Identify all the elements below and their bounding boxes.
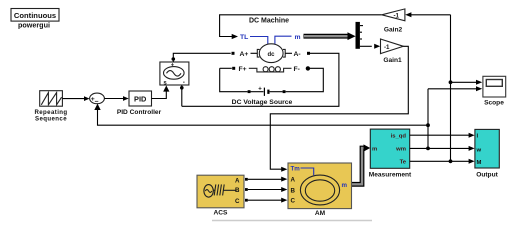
powergui block xyxy=(11,9,59,30)
svg-text:m: m xyxy=(372,147,377,153)
thick m vector wire to demux xyxy=(304,32,356,40)
gain1 xyxy=(381,39,404,64)
svg-text:A: A xyxy=(291,176,296,183)
svg-text:AM: AM xyxy=(315,210,326,217)
controlled voltage source U1 xyxy=(160,62,189,86)
svg-text:B: B xyxy=(235,187,240,194)
wire from Te vertical into gain2 xyxy=(405,12,450,17)
wire wm to output w xyxy=(410,146,475,151)
armature return wire A- to CVS - xyxy=(182,53,339,106)
svg-text:TL: TL xyxy=(240,34,248,41)
wire CVS - terminal down to armature return xyxy=(180,85,184,106)
svg-text:-1: -1 xyxy=(384,44,390,51)
svg-text:Sequence: Sequence xyxy=(35,116,67,123)
wire ACS A to AM A xyxy=(245,177,287,182)
svg-text:dc: dc xyxy=(267,52,275,58)
svg-text:M: M xyxy=(477,160,482,166)
ACS block xyxy=(197,175,244,216)
svg-text:powergui: powergui xyxy=(18,21,50,30)
svg-text:Measurement: Measurement xyxy=(369,172,412,179)
gain2 xyxy=(382,9,405,34)
svg-text:Te: Te xyxy=(400,159,407,165)
wire gain2 output to TL (top loop) xyxy=(220,15,382,39)
wire PID to controlled voltage source input xyxy=(152,85,170,98)
DC machine m port (blue) xyxy=(275,34,301,45)
svg-text:w: w xyxy=(476,148,482,154)
svg-text:wm: wm xyxy=(395,147,406,153)
wire ACS C to AM C xyxy=(245,198,287,203)
svg-text:Tm: Tm xyxy=(291,166,301,173)
svg-text:B: B xyxy=(291,187,296,194)
svg-text:Continuous: Continuous xyxy=(14,11,56,20)
svg-text:-1: -1 xyxy=(394,13,400,20)
repeating sequence block xyxy=(34,91,67,123)
svg-text:Scope: Scope xyxy=(484,100,504,107)
svg-text:Gain2: Gain2 xyxy=(384,27,403,34)
vertical net wm (v1) xyxy=(426,86,482,150)
DC machine TL port (blue) xyxy=(240,34,268,45)
wire Te to output M xyxy=(410,159,475,164)
field inductor coil xyxy=(249,67,292,72)
DC machine icon: armature circle xyxy=(257,44,285,63)
svg-text:A+: A+ xyxy=(240,51,249,58)
svg-text:+: + xyxy=(258,87,262,93)
svg-text:-: - xyxy=(183,79,185,86)
faint artifact line xyxy=(212,220,372,222)
field circuit left wire xyxy=(220,67,248,92)
scope block xyxy=(483,76,506,106)
svg-text:+: + xyxy=(171,63,175,69)
svg-text:ACS: ACS xyxy=(214,209,229,216)
svg-text:PID Controller: PID Controller xyxy=(117,109,162,116)
AM block xyxy=(288,163,352,217)
svg-text:Output: Output xyxy=(476,171,498,178)
A- port xyxy=(285,51,310,58)
wire is_qd to output I xyxy=(410,133,475,138)
speed feedback wire to sum xyxy=(94,104,428,126)
wire repeating sequence to sum xyxy=(62,96,89,101)
svg-text:A: A xyxy=(235,177,240,184)
svg-text:is_qd: is_qd xyxy=(391,134,407,140)
thick wire AM m to measurement xyxy=(352,144,371,184)
wire CVS + terminal up to A+ xyxy=(172,52,235,62)
demux xyxy=(356,22,381,49)
A+ port xyxy=(240,51,258,58)
measurement block xyxy=(369,129,412,178)
svg-text:m: m xyxy=(295,34,301,41)
svg-text:m: m xyxy=(342,182,348,189)
wire ACS B to AM B xyxy=(245,187,287,192)
svg-text:C: C xyxy=(235,198,240,205)
svg-text:F+: F+ xyxy=(239,66,247,73)
F- port xyxy=(286,66,324,92)
svg-text:A-: A- xyxy=(294,51,301,58)
svg-text:DC Voltage Source: DC Voltage Source xyxy=(232,99,293,106)
DC voltage source battery xyxy=(248,87,286,96)
output block xyxy=(475,129,499,178)
svg-text:–: – xyxy=(95,98,99,105)
wire sum to PID xyxy=(105,96,129,101)
svg-text:C: C xyxy=(291,197,296,204)
svg-text:Gain1: Gain1 xyxy=(383,57,402,64)
vertical net Te (v2) xyxy=(449,15,483,163)
sum block xyxy=(90,93,105,105)
svg-text:DC Machine: DC Machine xyxy=(249,18,289,25)
svg-text:PID: PID xyxy=(134,94,147,103)
svg-text:F-: F- xyxy=(294,66,300,73)
gain1 output wire to AM Tm xyxy=(270,46,408,171)
PID controller block xyxy=(117,91,162,116)
